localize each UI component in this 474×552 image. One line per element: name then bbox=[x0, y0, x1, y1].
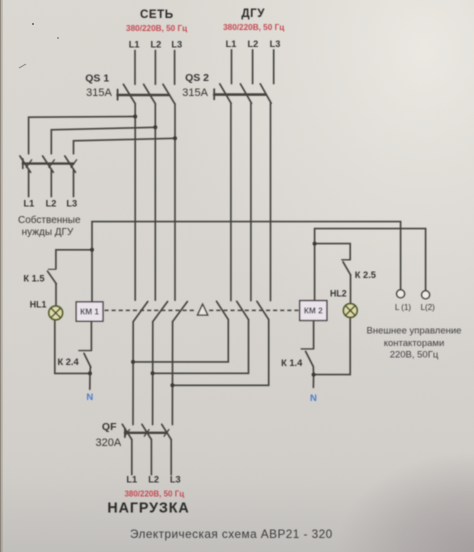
svg-text:К 2.5: К 2.5 bbox=[355, 270, 376, 280]
switch QS1 left tick bbox=[117, 90, 119, 100]
wire: QF out 1 bbox=[131, 440, 133, 475]
svg-text:L1: L1 bbox=[24, 198, 35, 208]
svg-text:L1: L1 bbox=[126, 475, 137, 485]
svg-text:N: N bbox=[86, 392, 93, 403]
breaker QF cross tick1 bbox=[125, 430, 130, 437]
wire: K1.4 to N junction bbox=[312, 366, 314, 374]
svg-text:L3: L3 bbox=[270, 39, 281, 49]
wire: genset phase C QS2 to KM2 bbox=[270, 103, 272, 300]
svg-text:L3: L3 bbox=[171, 39, 182, 49]
contact K1.5 tick bbox=[48, 268, 56, 270]
svg-text:КМ 2: КМ 2 bbox=[304, 306, 323, 316]
wire: genset phase B QS2 to KM2 bbox=[250, 103, 252, 300]
node: tap1 junction bbox=[133, 115, 137, 119]
wire: K2.5 to HL2 bbox=[350, 275, 352, 303]
svg-text:К 2.4: К 2.4 bbox=[58, 357, 80, 367]
node: N junction right bbox=[312, 373, 316, 377]
svg-text:контакторами: контакторами bbox=[384, 338, 445, 349]
svg-text:L2: L2 bbox=[248, 39, 259, 49]
wire: KM1 out 2 to QF bbox=[152, 322, 154, 425]
svg-text:L1: L1 bbox=[226, 39, 237, 49]
switch QS1 bus bbox=[118, 94, 169, 97]
contactor KM1 blade pole1 bbox=[133, 302, 148, 322]
wire: KM1 out 3 to QF bbox=[171, 322, 173, 425]
wire: aux out 2 bbox=[50, 170, 52, 197]
switch QS1 blade pole2 bbox=[144, 84, 156, 104]
breaker aux blade pole2 bbox=[43, 156, 54, 172]
wire: KM1 coil feed bbox=[91, 222, 93, 302]
wire: HL2 to N junction right bbox=[314, 318, 351, 375]
wire: aux out 1 bbox=[28, 170, 30, 197]
svg-text:К 1.5: К 1.5 bbox=[23, 273, 44, 283]
svg-text:L(2): L(2) bbox=[421, 303, 436, 312]
svg-text:QF: QF bbox=[102, 421, 117, 433]
contact K2.5 tick bbox=[342, 259, 350, 261]
switch QS2 bus bbox=[214, 93, 266, 96]
contactor KM1 blade pole2 bbox=[153, 302, 168, 322]
svg-text:380/220В, 50 Гц: 380/220В, 50 Гц bbox=[124, 489, 184, 498]
svg-text:Электрическая схема АВР21 - 32: Электрическая схема АВР21 - 320 bbox=[130, 527, 333, 541]
wire: СЕТЬ L1 drop to QS1 bbox=[134, 51, 136, 85]
breaker aux left tick bbox=[22, 159, 24, 169]
breaker QF blade pole3 bbox=[162, 424, 172, 439]
contact K1.4 blade bbox=[306, 351, 314, 366]
wire: mains phase C QS1 to KM1 bbox=[174, 104, 176, 300]
switch QS1 blade pole1 bbox=[123, 84, 135, 104]
interlock dashed line bbox=[105, 309, 299, 311]
wire: KM2 coil feed bbox=[314, 229, 316, 301]
contactor coil KM1 bbox=[76, 302, 103, 321]
contact K2.5 blade bbox=[343, 262, 351, 275]
node: load phase A junction bbox=[131, 360, 135, 364]
svg-text:L1: L1 bbox=[129, 39, 140, 49]
breaker aux blade pole3 bbox=[65, 156, 76, 172]
wire: KM1 coil to K2.4 bbox=[90, 321, 92, 350]
lamp HL1 bbox=[49, 306, 63, 320]
breaker QF cross tick2 bbox=[144, 430, 149, 437]
node: N junction left bbox=[88, 371, 92, 375]
svg-text:L3: L3 bbox=[66, 198, 77, 208]
svg-text:315А: 315А bbox=[86, 87, 112, 99]
svg-text:L2: L2 bbox=[46, 198, 57, 208]
wire: KM2 out 2 bend bbox=[153, 320, 249, 374]
breaker QF blade pole2 bbox=[142, 424, 152, 439]
node: K2.5 branch junction bbox=[313, 242, 317, 246]
breaker QF cross tick3 bbox=[164, 430, 169, 437]
switch QS2 blade pole2 bbox=[240, 84, 251, 103]
svg-text:КМ 1: КМ 1 bbox=[80, 307, 99, 317]
wire: ДГУ L1 drop to QS2 bbox=[231, 50, 233, 84]
svg-text:QS 1: QS 1 bbox=[85, 73, 109, 85]
contactor coil KM2 bbox=[300, 301, 327, 321]
wire: СЕТЬ L3 drop to QS1 bbox=[174, 51, 176, 85]
contact K1.4 tick bbox=[301, 348, 313, 350]
wire: KM2 out 1 bend bbox=[133, 320, 228, 362]
breaker aux blade pole1 bbox=[20, 156, 31, 172]
wire: L(1) control rail bbox=[92, 222, 401, 290]
svg-text:315А: 315А bbox=[182, 87, 208, 99]
contactor KM1 blade pole3 bbox=[173, 302, 188, 322]
wire: ДГУ L3 drop to QS2 bbox=[273, 50, 275, 84]
svg-text:L3: L3 bbox=[170, 475, 181, 485]
svg-text:HL2: HL2 bbox=[330, 288, 347, 298]
wire: N tail right bbox=[312, 375, 314, 388]
svg-text:L2: L2 bbox=[151, 39, 162, 49]
breaker aux cross tick2 bbox=[49, 160, 55, 168]
svg-text:НАГРУЗКА: НАГРУЗКА bbox=[107, 500, 189, 516]
breaker QF left tick bbox=[124, 429, 126, 438]
wire: mains phase B QS1 to KM1 bbox=[154, 104, 156, 300]
terminal L(1) bbox=[397, 290, 405, 298]
node: load phase B junction bbox=[151, 371, 155, 375]
svg-text:Внешнее управление: Внешнее управление bbox=[367, 325, 462, 336]
svg-text:220В, 50Гц: 220В, 50Гц bbox=[390, 349, 439, 360]
breaker QF blade pole1 bbox=[122, 424, 132, 439]
breaker QF bus bbox=[125, 432, 167, 434]
node: load phase C junction bbox=[170, 383, 174, 387]
node: HL1 branch junction bbox=[90, 248, 94, 252]
contactor KM2 blade pole1 bbox=[217, 301, 229, 319]
wire: СЕТЬ L2 drop to QS1 bbox=[154, 51, 156, 85]
contact K1.5 blade bbox=[48, 271, 57, 284]
wire: QF out 3 bbox=[170, 440, 172, 475]
wire: L(2) control rail bbox=[315, 229, 426, 291]
node: tap3 junction bbox=[173, 136, 177, 140]
wire: tap 1 to aux breaker bbox=[29, 117, 136, 154]
svg-text:Собственные: Собственные bbox=[18, 214, 81, 226]
switch QS2 blade pole1 bbox=[220, 84, 231, 103]
wire: aux out 3 bbox=[73, 170, 75, 197]
svg-text:N: N bbox=[310, 393, 317, 404]
breaker aux cross tick3 bbox=[71, 160, 77, 168]
wire: K2.5 branch top bbox=[315, 244, 351, 260]
wire: HL1 branch top bbox=[56, 250, 92, 269]
contactor KM2 blade pole2 bbox=[237, 301, 249, 319]
contact K2.4 blade bbox=[84, 353, 91, 367]
wire: mains phase A QS1 to KM1 bbox=[134, 104, 136, 300]
switch QS2 blade pole3 bbox=[260, 84, 271, 103]
wire: KM2 coil to K1.4 bbox=[313, 321, 315, 349]
switch QS1 blade pole3 bbox=[163, 84, 175, 104]
lamp HL2 bbox=[343, 304, 357, 318]
svg-text:380/220В, 50 Гц: 380/220В, 50 Гц bbox=[126, 24, 187, 33]
wire: KM1 out 1 to QF bbox=[132, 322, 134, 425]
node: tap2 junction bbox=[153, 125, 157, 129]
svg-text:нужды ДГУ: нужды ДГУ bbox=[22, 227, 74, 238]
wire: N tail left bbox=[89, 373, 91, 389]
svg-text:HL1: HL1 bbox=[30, 300, 47, 310]
wire: K1.5 to HL1 bbox=[55, 284, 57, 306]
wire: tap 2 to aux breaker bbox=[51, 127, 155, 154]
svg-text:ДГУ: ДГУ bbox=[241, 7, 265, 20]
wire: QF out 2 bbox=[150, 440, 152, 475]
svg-text:СЕТЬ: СЕТЬ bbox=[140, 8, 174, 21]
wire: KM2 out 3 bend bbox=[172, 320, 268, 386]
breaker aux cross tick1 bbox=[26, 160, 32, 168]
terminal L(2) bbox=[422, 291, 430, 299]
svg-text:L (1): L (1) bbox=[395, 303, 411, 312]
svg-text:L2: L2 bbox=[148, 475, 159, 485]
wire: ДГУ L2 drop to QS2 bbox=[252, 50, 254, 84]
wire: genset phase A QS2 to KM2 bbox=[230, 103, 232, 300]
switch QS2 left tick bbox=[213, 89, 215, 99]
breaker aux bus bbox=[23, 162, 74, 164]
contactor KM2 blade pole3 bbox=[257, 301, 269, 319]
svg-text:К 1.4: К 1.4 bbox=[281, 358, 303, 368]
wire: HL1 to N rail bbox=[55, 320, 90, 373]
svg-text:320А: 320А bbox=[95, 437, 121, 449]
svg-text:380/220В, 50 Гц: 380/220В, 50 Гц bbox=[223, 23, 284, 32]
svg-text:QS 2: QS 2 bbox=[185, 72, 209, 84]
contact K2.4 tick bbox=[79, 350, 92, 352]
wire: K2.4 to N junction bbox=[89, 367, 91, 373]
interlock triangle bbox=[198, 304, 208, 315]
wire: tap 3 to aux breaker bbox=[74, 138, 176, 154]
